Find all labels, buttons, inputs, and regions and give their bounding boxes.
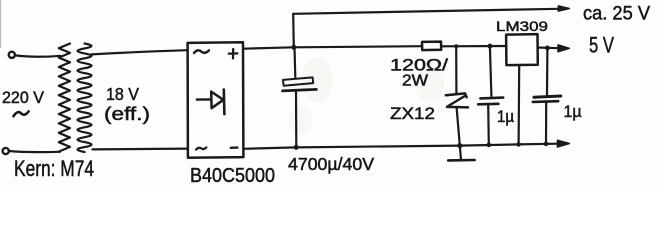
svg-text:18 V: 18 V <box>106 84 139 104</box>
scan page edge <box>0 0 2 48</box>
zener D1 cathode bar with hook <box>446 93 467 97</box>
wire J2 to primary bottom <box>9 151 60 152</box>
wire 25V output line <box>293 9 559 14</box>
junction dot C3 bottom <box>544 142 549 147</box>
scan smudge 1 <box>301 58 333 102</box>
regulator U1 ground pin wire <box>517 65 520 144</box>
regulator U1 LM309 box <box>506 34 538 65</box>
terminal J2 (mains bottom-left) <box>3 148 9 154</box>
capacitor C2 top plate <box>480 96 503 99</box>
bridge ~ mark top <box>194 50 209 53</box>
wire node A to resistor <box>294 46 422 47</box>
wire bridge + output to node A <box>243 47 293 48</box>
capacitor C3 top wire <box>546 48 549 96</box>
capacitor C1 top plate (boxed) <box>283 77 313 85</box>
transformer T1 secondary winding <box>78 44 92 153</box>
transformer T1 primary winding <box>59 44 70 152</box>
bridge - mark <box>231 146 238 149</box>
wire riser node A up <box>292 14 295 48</box>
tilde under 220V <box>14 111 29 116</box>
zener top junction dot <box>454 44 458 48</box>
scan smudge 3 <box>288 106 312 134</box>
capacitor C3 bottom wire <box>545 102 547 144</box>
capacitor C1 top wire <box>293 47 296 77</box>
node B junction dot (5V) <box>545 46 550 51</box>
wire secondary top to bridge <box>92 50 188 54</box>
zener D1 top wire <box>455 46 457 94</box>
junction dot U1 gnd <box>516 142 521 147</box>
svg-text:1µ: 1µ <box>497 107 514 126</box>
zener D1 diagonal <box>447 96 465 107</box>
junction dot C1 bottom <box>294 145 299 150</box>
svg-text:LM309: LM309 <box>496 18 548 34</box>
bridge diode triangle <box>211 92 223 109</box>
wire secondary bottom to bridge <box>93 148 188 151</box>
zener D1 anode base <box>447 106 468 109</box>
junction dot zener bottom <box>457 143 462 148</box>
wire J1 to primary top <box>15 55 60 56</box>
ground bar <box>448 159 474 162</box>
svg-text:ZX12: ZX12 <box>390 104 435 123</box>
node A junction dot <box>291 45 296 50</box>
svg-text:B40C5000: B40C5000 <box>190 165 275 187</box>
svg-text:Kern: M74: Kern: M74 <box>14 156 94 181</box>
arrowhead 5V <box>558 45 569 52</box>
capacitor C1 bottom plate <box>283 89 317 91</box>
bridge + mark <box>229 49 238 58</box>
ground stub <box>460 146 461 159</box>
bridge ~ mark bottom <box>196 147 206 149</box>
svg-text:4700µ/40V: 4700µ/40V <box>288 154 374 174</box>
zener D1 bottom wire <box>457 107 460 145</box>
junction dot C2 bottom <box>487 143 492 148</box>
bridge diode cathode bar <box>223 90 226 115</box>
bridge rectifier B1 box <box>188 42 244 158</box>
svg-text:220 V: 220 V <box>2 89 44 107</box>
svg-text:ca. 25 V: ca. 25 V <box>583 3 650 25</box>
svg-text:2W: 2W <box>402 73 428 90</box>
wire resistor to LM309 input <box>441 45 506 47</box>
bottom rail bridge to arrow <box>243 144 557 149</box>
capacitor C2 top junction dot <box>487 44 492 49</box>
arrowhead bottom rail <box>557 140 569 147</box>
svg-text:5 V: 5 V <box>589 33 614 58</box>
capacitor C3 top plate <box>534 96 561 97</box>
capacitor C2 bottom plate <box>478 103 498 106</box>
bridge diode anode lead <box>197 98 211 101</box>
capacitor C2 bottom wire <box>487 104 490 145</box>
arrowhead 25V <box>558 6 569 11</box>
scan smudge 2 <box>416 67 444 103</box>
capacitor C1 bottom wire <box>295 91 297 147</box>
resistor R1 body <box>422 42 441 51</box>
svg-text:(eff.): (eff.) <box>104 104 150 124</box>
terminal J1 (mains top-left) <box>9 52 15 58</box>
regulator U1 output wire <box>538 46 559 49</box>
capacitor C3 bottom plate <box>533 100 558 103</box>
capacitor C2 top wire <box>490 46 492 96</box>
svg-text:1µ: 1µ <box>564 103 582 121</box>
